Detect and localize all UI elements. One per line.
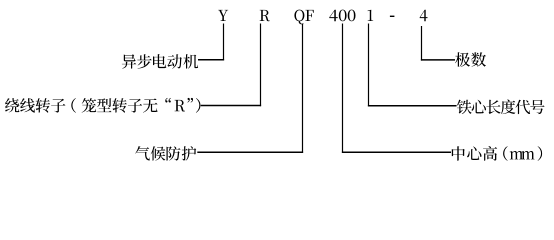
motor model designation diagram: [0, 0, 554, 175]
wire: 4 horizontal to poles label: [421, 59, 455, 61]
model number 400: [329, 10, 355, 22]
wire: 1 vertical leader: [368, 24, 370, 107]
wire: 1 horizontal to core-length label: [368, 105, 457, 107]
label: core length code 铁心长度代号: [457, 100, 545, 115]
model letter R: [260, 10, 270, 21]
wire: Y horizontal to motor-type label: [198, 59, 224, 61]
hyphen separator: [390, 16, 395, 17]
wire: R horizontal to rotor label: [201, 105, 261, 107]
wire: QF horizontal to climate label: [197, 151, 303, 153]
wire: 400 vertical leader: [342, 24, 344, 154]
wire: 4 vertical leader: [421, 26, 423, 61]
wire: Y vertical leader: [223, 24, 225, 61]
label: asynchronous motor 异步电动机: [122, 54, 198, 69]
wire: R vertical leader: [260, 24, 262, 107]
label: number of poles 极数: [455, 52, 486, 66]
wire: QF vertical leader: [302, 24, 304, 154]
label: wound rotor 绕线转子（笼型转子无“R”）: [5, 98, 200, 113]
model letters QF: [294, 10, 313, 25]
label: climate protection 气候防护: [135, 146, 196, 161]
wire: 400 horizontal to centre-height label: [342, 151, 451, 153]
model letter Y: [218, 10, 228, 21]
label: centre height 中心高（mm）: [452, 146, 542, 161]
model digit 1: [368, 10, 374, 21]
model digit 4 (poles): [420, 10, 428, 22]
